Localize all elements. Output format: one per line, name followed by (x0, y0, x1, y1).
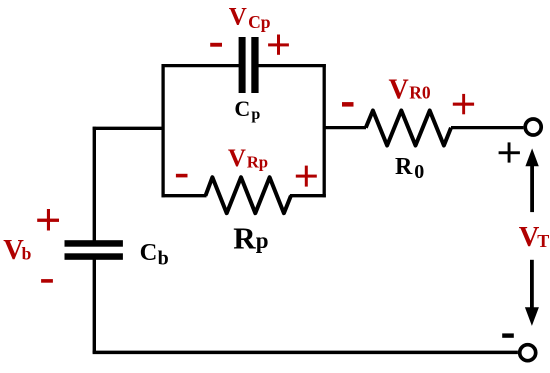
sign: minus for VR0 (342, 102, 354, 107)
svg-text:Cp: Cp (248, 12, 271, 32)
wire: parallel box right side (323, 64, 326, 197)
wire: left vertical branch lower segment (Cb bottom plate down to bottom rail) (93, 260, 96, 354)
label Cb (capacitor designator) (140, 239, 169, 270)
label VCp (voltage across Cp) (229, 3, 271, 32)
svg-text:0: 0 (414, 161, 424, 183)
label VR0 (voltage across R0) (389, 74, 431, 105)
svg-text:V: V (228, 145, 246, 172)
svg-text:p: p (251, 106, 260, 123)
svg-text:b: b (22, 243, 32, 263)
svg-text:T: T (537, 231, 549, 251)
label Rp (resistor designator) (233, 221, 268, 256)
sign: plus for VRp (296, 166, 317, 187)
wire: from box right side to R0 (324, 126, 366, 129)
sign: minus at negative terminal (black) (502, 333, 514, 337)
sign: plus for Vb (37, 209, 59, 231)
capacitor Cb (plates) (65, 240, 123, 260)
svg-text:Rp: Rp (247, 153, 268, 172)
wire: bottom rail from left branch to negative terminal (93, 351, 518, 355)
sign: plus for VCp (268, 35, 289, 55)
svg-text:p: p (256, 228, 269, 253)
svg-text:R: R (395, 154, 413, 180)
wire: box top-left segment to Cp left plate (162, 64, 240, 67)
sign: plus at positive terminal (black) (499, 142, 520, 162)
label Cp (capacitor designator) (234, 96, 260, 123)
wire: box bottom-right segment from Rp (290, 194, 326, 197)
label VT (terminal voltage) (519, 222, 550, 253)
label R0 (resistor designator) (395, 154, 424, 183)
terminal: positive output terminal (open circle, top right) (525, 119, 541, 135)
arrow: VT down arrow (toward negative terminal) (525, 260, 539, 326)
sign: minus for VRp (176, 174, 188, 178)
svg-text:b: b (158, 248, 169, 270)
sign: minus for Vb (41, 279, 53, 283)
svg-text:V: V (229, 3, 247, 30)
wire: horizontal wire from left branch to parallel box (93, 127, 163, 130)
svg-text:C: C (140, 239, 158, 266)
capacitor Cp (plates) (239, 37, 259, 93)
arrow: VT up arrow (toward positive terminal) (525, 148, 538, 212)
svg-text:R: R (233, 221, 256, 256)
label Vb (battery voltage) (3, 235, 31, 266)
wire: parallel box left side (161, 64, 164, 197)
resistor Rp (zigzag) (206, 177, 291, 213)
wire: box top-right segment from Cp right plate (258, 64, 326, 67)
svg-text:V: V (389, 74, 409, 105)
wire: left vertical branch upper segment (node Vb+ down to Cb top plate) (93, 127, 96, 241)
svg-text:C: C (234, 96, 250, 121)
sign: minus for VCp (210, 43, 222, 47)
sign: plus for VR0 (453, 94, 474, 114)
terminal: negative output terminal (open circle, bottom right) (520, 345, 536, 361)
wire: box bottom-left segment to Rp (162, 194, 207, 197)
svg-text:R0: R0 (409, 83, 431, 103)
label VRp (voltage across Rp) (228, 145, 268, 172)
wire: from R0 to positive terminal (451, 126, 523, 129)
resistor R0 (zigzag) (366, 111, 451, 146)
